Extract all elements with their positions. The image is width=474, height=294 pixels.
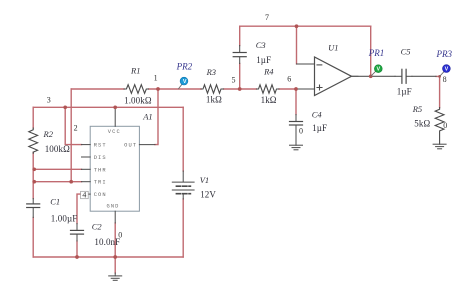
svg-text:C3: C3: [256, 40, 266, 50]
pin stub OUT: [139, 144, 155, 146]
wire H4 top feedback horizontal: [240, 25, 371, 27]
resistor R4: [257, 85, 280, 93]
svg-text:R2: R2: [43, 129, 54, 139]
svg-text:1µF: 1µF: [312, 123, 327, 133]
svg-text:V: V: [376, 67, 380, 73]
wire OUT to node 1: [155, 89, 158, 145]
ground below C4: [290, 145, 303, 150]
probe PR2: [179, 83, 184, 89]
wire C2 bottom to bus: [76, 241, 78, 257]
junction dot H2/RST: [63, 105, 67, 109]
svg-text:1kΩ: 1kΩ: [206, 95, 222, 105]
ground below chip GND: [109, 273, 122, 280]
svg-text:V: V: [445, 67, 449, 73]
svg-text:1.00kΩ: 1.00kΩ: [124, 95, 152, 105]
probe PR3: [440, 71, 445, 76]
capacitor C5 horizontal: [395, 69, 412, 83]
resistor R5 vertical: [435, 108, 444, 145]
svg-text:DIS: DIS: [94, 155, 107, 161]
op-amp minus sign: [317, 64, 322, 66]
555 chip A1 box: [90, 126, 139, 211]
svg-text:V1: V1: [200, 175, 209, 185]
junction dot node 5 / C3: [238, 87, 242, 91]
wire CON branch down to C2: [77, 194, 82, 223]
svg-text:V: V: [183, 79, 187, 85]
svg-text:1: 1: [154, 74, 158, 83]
node label 4 with box: [81, 191, 89, 198]
op-amp output stub: [352, 75, 359, 77]
junction dot TRI/R2: [32, 180, 36, 184]
svg-text:U1: U1: [328, 42, 338, 52]
svg-text:8: 8: [443, 75, 447, 84]
svg-text:THR: THR: [94, 167, 107, 173]
wire feedback vertical to output: [370, 26, 372, 76]
junction dot TRI/R1-branch: [69, 180, 73, 184]
wire minus-input vertical: [296, 26, 298, 64]
op-amp input stub minus: [297, 63, 315, 65]
capacitor C3: [233, 46, 246, 64]
capacitor C1: [27, 199, 40, 218]
junction dot node 8 corner: [438, 75, 441, 78]
junction dot H2/VCC: [113, 105, 117, 109]
svg-text:RST: RST: [94, 143, 107, 149]
svg-text:5: 5: [232, 76, 236, 85]
svg-text:6: 6: [287, 75, 291, 84]
op-amp plus sign: [317, 85, 322, 90]
svg-text:1µF: 1µF: [397, 86, 412, 96]
wire out run gray from op-amp to C5 to node8: [352, 75, 396, 77]
svg-text:2: 2: [74, 123, 78, 132]
capacitor C2: [71, 224, 84, 242]
wire GND pin to bus and ground: [114, 223, 116, 273]
svg-text:0: 0: [299, 126, 303, 135]
junction dot bus/C2: [75, 255, 79, 259]
resistor R2 vertical: [29, 128, 38, 153]
wire THR horizontal: [34, 168, 81, 170]
junction dot bus/GND: [113, 255, 117, 259]
svg-text:PR1: PR1: [368, 48, 385, 58]
svg-text:VCC: VCC: [108, 129, 121, 135]
svg-text:PR2: PR2: [176, 62, 193, 72]
wire V1 branch vertical: [182, 107, 184, 257]
junction dot THR/R2: [32, 167, 36, 171]
probe PR1: [371, 71, 377, 77]
svg-text:PR3: PR3: [436, 49, 453, 59]
wire RST branch: [65, 107, 81, 144]
svg-text:C4: C4: [312, 110, 323, 120]
pin stub THR: [82, 168, 91, 170]
junction dot output/feedback: [369, 74, 373, 78]
svg-text:3: 3: [47, 95, 51, 104]
junction dot node 1: [156, 87, 160, 91]
svg-text:1µF: 1µF: [256, 55, 271, 65]
wire node8 corner red: [436, 76, 440, 107]
svg-text:100kΩ: 100kΩ: [45, 144, 70, 154]
pin stub TRI: [82, 181, 91, 183]
svg-text:1kΩ: 1kΩ: [261, 95, 277, 105]
svg-text:C1: C1: [50, 196, 60, 206]
svg-text:OUT: OUT: [124, 143, 137, 149]
wire H1 main horizontal net (R1-R3-R4 row): [71, 88, 296, 90]
pin stub DIS: [82, 156, 91, 158]
svg-text:GND: GND: [106, 204, 119, 210]
svg-text:1.00µF: 1.00µF: [51, 213, 78, 223]
svg-text:0: 0: [443, 121, 447, 130]
wire bottom ground bus: [33, 256, 183, 258]
svg-text:R3: R3: [206, 67, 216, 77]
svg-text:7: 7: [265, 13, 269, 22]
pin stub GND: [114, 211, 116, 223]
junction dot node 6: [294, 87, 298, 91]
svg-text:C5: C5: [401, 46, 411, 56]
svg-text:CON: CON: [94, 192, 107, 198]
junction dot H4/minus: [295, 24, 299, 28]
wire H2 VCC/RST bus horizontal: [33, 106, 183, 108]
svg-text:A1: A1: [142, 112, 152, 122]
pin stub RST: [82, 144, 91, 146]
resistor R1: [124, 85, 149, 94]
svg-text:5kΩ: 5kΩ: [414, 119, 430, 129]
pin stub CON: [82, 193, 91, 195]
ground below R5: [433, 144, 446, 149]
pin stub VCC: [114, 107, 116, 126]
wire TRI horizontal: [34, 181, 81, 183]
svg-text:4: 4: [82, 191, 86, 200]
wire vertical from H1 left end down to TRI: [70, 89, 72, 182]
svg-text:10.0nF: 10.0nF: [94, 237, 120, 247]
wire left vertical R2/C1 line: [32, 107, 34, 257]
wire node6 down to C4: [295, 89, 297, 115]
svg-text:TRI: TRI: [94, 180, 107, 186]
svg-text:R5: R5: [412, 104, 422, 114]
svg-text:R1: R1: [130, 65, 140, 75]
svg-text:R4: R4: [263, 67, 274, 77]
op-amp input stub plus: [296, 88, 315, 90]
capacitor C4: [290, 115, 303, 146]
svg-text:12V: 12V: [200, 190, 216, 200]
resistor R3: [201, 85, 224, 93]
svg-text:C2: C2: [92, 221, 103, 231]
battery V1: [172, 171, 194, 199]
op-amp U1: [315, 57, 352, 96]
wire C3 branch vertical: [239, 26, 241, 89]
